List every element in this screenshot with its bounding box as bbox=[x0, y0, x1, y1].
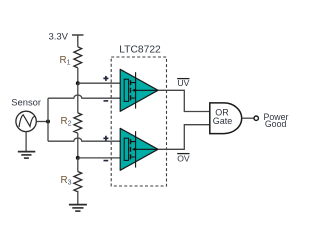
ground (sensor) bbox=[18, 152, 36, 159]
svg-text:3.3V: 3.3V bbox=[48, 32, 68, 43]
supply 3.3V symbol bbox=[72, 35, 84, 47]
svg-text:Sensor: Sensor bbox=[11, 96, 41, 107]
wire sensor to junction bbox=[36, 121, 48, 123]
wire U1 output to OR gate bbox=[158, 90, 210, 111]
svg-text:UV: UV bbox=[177, 78, 189, 88]
wire sensor to U2 + input (hop over rail) bbox=[48, 138, 124, 141]
sensor junction dot bbox=[46, 120, 50, 124]
net label UV (overbar) bbox=[177, 78, 189, 80]
resistor R1 bbox=[74, 47, 82, 68]
U1 internal MOSFET bbox=[124, 72, 158, 108]
node B junction dot bbox=[76, 156, 80, 160]
resistor R2 bbox=[74, 113, 82, 133]
svg-text:Good: Good bbox=[265, 119, 287, 129]
wire R2 to node B bbox=[77, 133, 79, 158]
wire node A to comparator U1 + input bbox=[78, 82, 124, 84]
wire R1 to node A bbox=[77, 68, 79, 83]
wire R3 to ground bbox=[77, 191, 79, 205]
resistor R3 bbox=[74, 172, 82, 192]
OR gate U3 bbox=[210, 103, 242, 134]
pin label - (U2) bbox=[104, 160, 109, 162]
ground (divider) bbox=[69, 205, 87, 212]
wire U2 output to OR gate bbox=[158, 125, 210, 150]
comparator U2 (bottom) bbox=[120, 128, 158, 170]
svg-text:Gate: Gate bbox=[213, 116, 233, 126]
sensor source symbol bbox=[16, 111, 36, 131]
svg-text:OV: OV bbox=[177, 154, 190, 164]
output bubble bbox=[254, 116, 258, 120]
dashed box LTC8722 bbox=[111, 57, 166, 186]
wire R2 upper lead bbox=[77, 83, 79, 113]
wire R3 upper lead bbox=[77, 158, 79, 172]
wire OR gate output bbox=[242, 117, 254, 119]
pin label + (U2) bbox=[103, 136, 108, 141]
wire sensor to ground bbox=[25, 132, 27, 152]
wire node B to comparator U2 - input bbox=[78, 157, 124, 159]
wire sensor to U1 - input (hop over rail) bbox=[48, 95, 124, 98]
U2 internal MOSFET bbox=[124, 131, 158, 167]
wire sensor branch vertical bbox=[47, 98, 49, 141]
svg-text:LTC8722: LTC8722 bbox=[119, 45, 161, 56]
pin label - (U1) bbox=[104, 100, 109, 102]
node A junction dot bbox=[76, 81, 80, 85]
pin label + (U1) bbox=[103, 76, 108, 81]
comparator U1 (top) bbox=[120, 69, 158, 111]
net label OV (overbar) bbox=[177, 153, 189, 155]
